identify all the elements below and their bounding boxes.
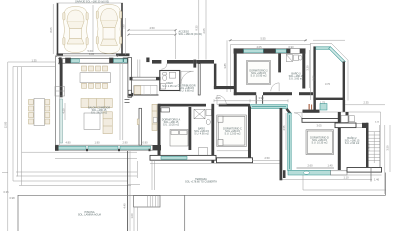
corridor glazing — [251, 105, 288, 109]
west tick — [2, 172, 8, 174]
corner wall piece — [283, 170, 286, 178]
bedroomA east wall — [189, 107, 192, 150]
svg-text:S.U. 10.35 m2: S.U. 10.35 m2 — [312, 142, 329, 145]
svg-text:S.U. 2.05 m2: S.U. 2.05 m2 — [162, 85, 177, 88]
car 1 — [63, 7, 88, 53]
terrace line y190 — [303, 189, 386, 191]
bath2 east wall — [366, 123, 369, 173]
site reference line 1 — [198, 0, 200, 60]
living west dim — [64, 103, 66, 120]
svg-text:SOL. LAMINA AGUA: SOL. LAMINA AGUA — [78, 214, 102, 217]
small vertical by terrace — [137, 161, 139, 178]
svg-text:9.85: 9.85 — [89, 52, 95, 56]
garage west dimension line — [52, 4, 54, 54]
bedroom2 west wall — [234, 49, 237, 96]
svg-text:1.46: 1.46 — [374, 177, 380, 181]
living west glazing — [60, 99, 63, 143]
svg-text:S.U. 10.20 m2: S.U. 10.20 m2 — [163, 124, 180, 127]
annex room outer line — [310, 44, 348, 101]
annex wall stubs — [313, 100, 316, 110]
lower terrace big rectangle — [185, 173, 386, 232]
pool outline — [18, 195, 386, 231]
svg-text:SOL +178.80 TO CUBIERTA: SOL +178.80 TO CUBIERTA — [185, 181, 217, 184]
living south wall east segment — [153, 145, 162, 150]
svg-text:12.85: 12.85 — [3, 121, 7, 128]
bath3 fixtures — [286, 55, 302, 62]
bedroomD south glazing — [288, 170, 331, 175]
pool house side lines — [133, 207, 135, 231]
kitchen west dim lines — [119, 64, 121, 140]
kitchen north wall — [130, 77, 161, 80]
svg-text:1.35: 1.35 — [31, 58, 37, 62]
terrace table — [34, 99, 45, 126]
svg-text:2.50: 2.50 — [264, 156, 270, 160]
annex room south wall — [313, 98, 345, 100]
sofa main — [81, 99, 112, 108]
corridor door arc — [217, 95, 226, 104]
kitchen counter — [134, 85, 157, 95]
garage south wall — [57, 53, 64, 56]
stairs entry wall piece — [346, 112, 349, 123]
sofa chaise — [103, 112, 112, 134]
outer line right — [384, 125, 386, 194]
annex top dim line — [313, 39, 345, 41]
bedroom2 block outer lines — [231, 44, 311, 46]
svg-text:2.55: 2.55 — [215, 96, 221, 100]
svg-text:7.90: 7.90 — [121, 24, 125, 30]
annex outer west line — [310, 44, 312, 101]
center south wall band — [150, 155, 216, 160]
corridor band to bedroomD — [303, 110, 320, 113]
bedroomD door arc — [294, 113, 302, 121]
svg-text:8.05: 8.05 — [49, 27, 53, 33]
bedroom2 door arc — [271, 83, 279, 91]
hall south wall of bedroom2 block — [234, 92, 256, 95]
terrace top lines — [8, 61, 55, 63]
annex room diagonal glazing — [329, 47, 346, 64]
staircase treads — [369, 132, 381, 161]
svg-text:5.55: 5.55 — [260, 36, 266, 40]
acceso dimension line upper — [129, 29, 176, 31]
living north dim line — [57, 55, 118, 57]
kitchen sw corner — [128, 93, 133, 97]
svg-text:2.30: 2.30 — [312, 75, 316, 81]
annex room east wall — [343, 62, 345, 101]
bedroomD west glazing — [288, 113, 292, 171]
kitchen west wall — [128, 58, 132, 98]
svg-text:S.U. 12.60 m2: S.U. 12.60 m2 — [225, 133, 242, 136]
terrace table chairs left col — [29, 100, 34, 125]
bedroomD south dim line — [297, 167, 335, 169]
staircase right rail — [379, 125, 381, 167]
svg-text:S.U. 10.95 m2: S.U. 10.95 m2 — [251, 75, 268, 78]
bedroomC closet — [199, 148, 208, 156]
hall north wall — [152, 60, 214, 68]
se short vertical — [370, 167, 372, 182]
half wall shelf — [137, 119, 139, 125]
bedroomD bed with label — [306, 130, 334, 155]
passage walls — [255, 95, 257, 104]
svg-text:1.10: 1.10 — [343, 176, 349, 180]
svg-text:3.05: 3.05 — [316, 124, 322, 128]
terrace bottom lines — [22, 151, 137, 153]
annex room west wall — [313, 46, 315, 100]
bath east wall — [211, 107, 214, 164]
living west wall — [60, 59, 63, 97]
hall door arc — [161, 64, 167, 70]
terrace line below rooms — [150, 163, 281, 165]
acceso dimension line lower — [129, 34, 176, 36]
terrace table chairs right col — [45, 100, 50, 125]
svg-text:2.35: 2.35 — [363, 101, 369, 105]
garage centre dim line — [92, 5, 94, 52]
stairs south wall — [347, 168, 382, 173]
corridor wall band A — [158, 104, 206, 107]
se dim line — [281, 179, 372, 181]
kitchen sink — [153, 118, 157, 123]
coffee table — [84, 113, 100, 129]
svg-text:4.50: 4.50 — [62, 108, 66, 114]
svg-text:1.40: 1.40 — [327, 163, 333, 167]
pool house box — [134, 196, 161, 208]
svg-text:GARAJE SOL +180.30 (±0.00): GARAJE SOL +180.30 (±0.00) — [75, 0, 109, 3]
acceso vertical line — [175, 30, 177, 59]
aseo toilet — [163, 73, 167, 75]
aseo walls — [160, 71, 180, 91]
svg-text:3.20: 3.20 — [306, 65, 310, 71]
pantry edge lines — [137, 60, 139, 78]
bedroom2 bed — [247, 61, 271, 85]
bath2 fixtures — [341, 115, 355, 122]
svg-text:0.35: 0.35 — [4, 190, 10, 194]
aseo shower tray — [161, 84, 166, 90]
annex-bedroomD teal window — [320, 104, 327, 111]
garage top line — [57, 2, 124, 4]
car 2 — [96, 5, 122, 54]
bedroomA west wall — [158, 104, 161, 155]
corridor dim line — [214, 100, 288, 102]
garden wall descending — [127, 151, 129, 231]
svg-text:0.90: 0.90 — [142, 141, 148, 145]
svg-text:1.00: 1.00 — [130, 213, 134, 219]
garage right wall — [121, 3, 123, 56]
entry door arc — [181, 71, 194, 84]
living north wall — [58, 57, 130, 64]
column — [146, 58, 149, 63]
bath2 north wall — [335, 123, 356, 128]
bath3 east wall — [302, 53, 305, 88]
bedroomD block outer line — [302, 112, 381, 125]
svg-text:0.98: 0.98 — [10, 196, 16, 200]
svg-text:2.05: 2.05 — [202, 28, 206, 34]
svg-text:3.50: 3.50 — [386, 145, 390, 151]
bedroomC east wall — [248, 107, 251, 164]
bedroom2 north wall — [234, 49, 305, 54]
svg-text:3.90: 3.90 — [258, 96, 264, 100]
garage left wall — [57, 3, 59, 56]
bedroom2 north glazing — [244, 50, 264, 53]
living south wall glazing — [55, 145, 153, 150]
svg-text:4.40: 4.40 — [123, 203, 127, 209]
svg-text:S.U. 2.90 m2: S.U. 2.90 m2 — [345, 142, 360, 145]
terrace pillar lines — [151, 161, 153, 190]
half wall salon — [139, 108, 142, 145]
bedroomD west dim — [285, 113, 287, 150]
svg-text:9.35: 9.35 — [195, 25, 199, 31]
site reference line 2 — [205, 0, 207, 60]
red dim marks — [309, 104, 310, 110]
svg-text:SOL +180.30 (±0.00): SOL +180.30 (±0.00) — [179, 33, 202, 36]
closet east wall — [214, 64, 217, 90]
garage door corner — [123, 58, 130, 62]
hall east wall — [198, 64, 200, 95]
bedroom2 block west dim line — [226, 40, 228, 92]
svg-text:4.50: 4.50 — [149, 26, 155, 30]
svg-text:4.80: 4.80 — [65, 141, 71, 145]
bedroomC south wall band — [217, 158, 253, 163]
svg-text:17x0.18: 17x0.18 — [369, 143, 371, 151]
kitchen side square — [128, 90, 131, 94]
bedroomA closet — [161, 108, 170, 112]
garage east dimension line — [124, 18, 126, 55]
svg-text:2.60: 2.60 — [307, 163, 313, 167]
dining table — [80, 73, 111, 83]
dining chairs bottom row — [82, 83, 108, 88]
stairs east dim line — [389, 125, 391, 172]
bedroomD east wall — [338, 112, 341, 170]
bedroomC bed — [217, 115, 247, 147]
svg-text:3.85: 3.85 — [223, 63, 227, 69]
south glazing mullions — [55, 145, 59, 151]
bedroomA bed — [170, 130, 188, 147]
svg-text:4.55: 4.55 — [282, 125, 286, 131]
aseo sink — [169, 72, 175, 78]
bedroom2 block top dimension line — [229, 39, 308, 41]
svg-text:S.U. 4.90 m2: S.U. 4.90 m2 — [194, 133, 209, 136]
pool house hatched part — [148, 196, 158, 208]
staircase middle rail — [373, 132, 375, 163]
svg-text:4.05: 4.05 — [256, 45, 262, 49]
svg-text:S.U. 28.05 m2: S.U. 28.05 m2 — [91, 112, 108, 115]
terrace boundary vertical lines left — [7, 62, 9, 231]
svg-text:S.U. 3.60 m2: S.U. 3.60 m2 — [289, 78, 304, 81]
kitchen lower cabinets — [152, 104, 157, 130]
bedroom2 east wall — [278, 53, 281, 72]
bedroomD south door leaf — [331, 171, 348, 175]
corridor diagonal wall — [286, 108, 292, 115]
svg-text:1.90: 1.90 — [94, 141, 100, 145]
svg-text:S.U. 6.80 m2: S.U. 6.80 m2 — [179, 90, 194, 93]
south line extension — [331, 174, 382, 176]
bedroomD north wall — [302, 119, 339, 123]
dining chairs top row — [82, 66, 108, 71]
garden steps below garage — [55, 56, 57, 146]
svg-text:3.70: 3.70 — [325, 82, 331, 86]
bath shower — [194, 109, 212, 124]
annex room north glazing — [316, 47, 331, 50]
bath3 east dim line — [309, 50, 311, 88]
hall east wall descending — [280, 108, 283, 180]
svg-text:2.90: 2.90 — [122, 141, 128, 145]
pool ledge tick — [128, 184, 140, 186]
